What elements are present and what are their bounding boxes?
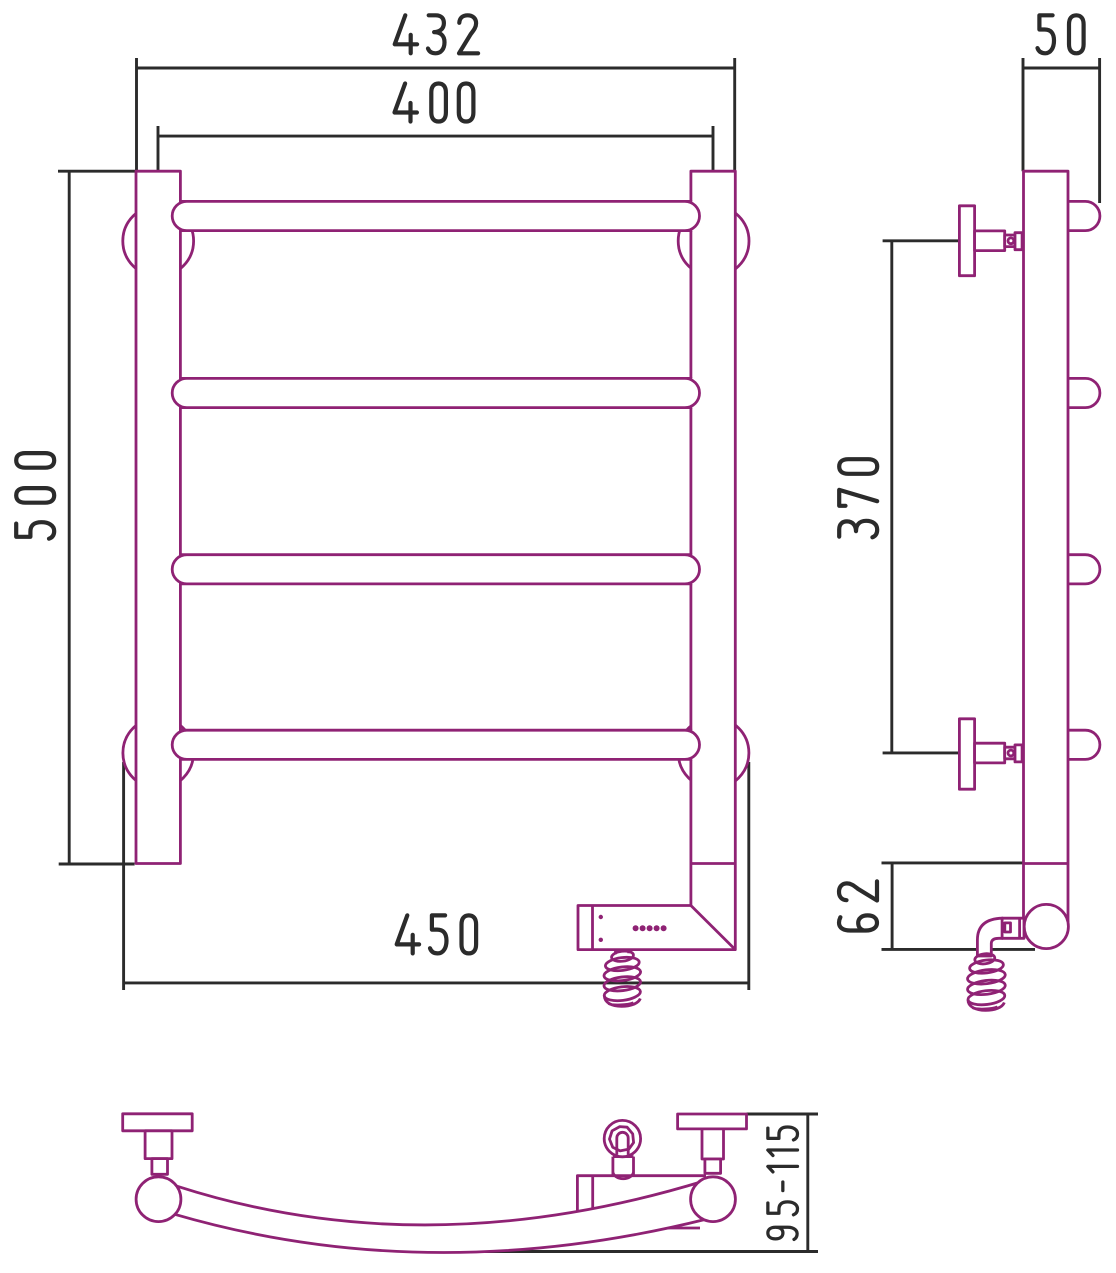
dimension 450 lines [124, 762, 749, 990]
side wall bracket top: neck [1005, 235, 1015, 247]
tube 2 [172, 378, 699, 407]
dimension 95-115 lines [440, 1114, 818, 1252]
left post [136, 171, 180, 863]
side wall bracket top: flange [959, 206, 974, 276]
dimension label 400 [395, 84, 474, 122]
dimension 500 lines [58, 171, 136, 864]
plan bowed tube band [175, 1181, 707, 1253]
plan left bracket flange [123, 1114, 193, 1131]
wall bracket circle bottom-left [123, 718, 194, 789]
side elbow fitting tube [977, 918, 1002, 956]
side tube end cap 4 [1068, 730, 1100, 759]
heater housing end cap line [591, 906, 594, 950]
tube 3 [172, 555, 699, 584]
dimension 370 lines [883, 241, 960, 753]
side wall bracket top: end cap [1015, 233, 1026, 250]
dimension label 500 [16, 453, 54, 539]
wall bracket circle top-right [678, 206, 749, 277]
plan valve neck [613, 1157, 634, 1179]
plan left bracket stem [145, 1131, 172, 1159]
tube 4 [172, 730, 699, 759]
plan heater box [577, 1176, 706, 1228]
dimension 400 lines [158, 126, 713, 171]
dimension label 95-115 [768, 1127, 798, 1239]
heater indicator small dots [599, 915, 603, 919]
wall bracket circle top-left [123, 206, 194, 277]
plan left bracket neck [152, 1159, 168, 1175]
side post bottom joint line [1024, 862, 1069, 865]
plan valve knurled octagon [610, 1127, 634, 1151]
plan right bracket flange [678, 1114, 747, 1129]
dimension label 370 [839, 459, 877, 537]
tube 1 [172, 201, 699, 230]
side wall bracket bottom: flange [959, 719, 974, 789]
side power cord spiral [967, 953, 1006, 1011]
front power cord spiral [603, 950, 641, 1006]
front power cord neck [616, 950, 629, 955]
right post with heater housing [578, 171, 735, 949]
side wall bracket bottom: neck [1005, 747, 1015, 759]
dimension 432 lines [137, 58, 735, 171]
heater housing diagonal [691, 906, 735, 950]
side elbow fitting box [1002, 918, 1024, 938]
side wall bracket top: stem [975, 231, 1005, 251]
side tube end cap 3 [1068, 555, 1100, 584]
plan valve handle slot [617, 1132, 628, 1154]
dimension label 450 [397, 915, 476, 953]
side wall bracket bottom: stem [975, 743, 1005, 763]
dimension label 432 [395, 15, 478, 53]
side tube end cap 1 [1068, 201, 1100, 230]
right post bottom joint line [691, 862, 735, 865]
dimension 62 lines [882, 863, 1036, 950]
plan right bracket stem [702, 1129, 724, 1159]
side post bar [1024, 171, 1069, 941]
side heater circle [1024, 904, 1068, 948]
plan right bracket neck [705, 1159, 721, 1173]
side tube end cap 2 [1068, 378, 1100, 407]
dimension 50 lines [1023, 58, 1100, 203]
plan valve outer circle [604, 1120, 640, 1156]
plan right post circle [691, 1177, 736, 1222]
wall bracket circle bottom-right [678, 718, 749, 789]
side wall bracket top: screw circle [1008, 238, 1014, 244]
heater LED row dots [633, 925, 667, 931]
plan left post circle [136, 1177, 181, 1222]
side elbow fitting inner square [1005, 923, 1011, 932]
dimension label 50 [1038, 15, 1084, 53]
side wall bracket bottom: end cap [1015, 745, 1026, 762]
side wall bracket bottom: screw circle [1008, 750, 1014, 756]
dimension label 62 [839, 881, 877, 930]
